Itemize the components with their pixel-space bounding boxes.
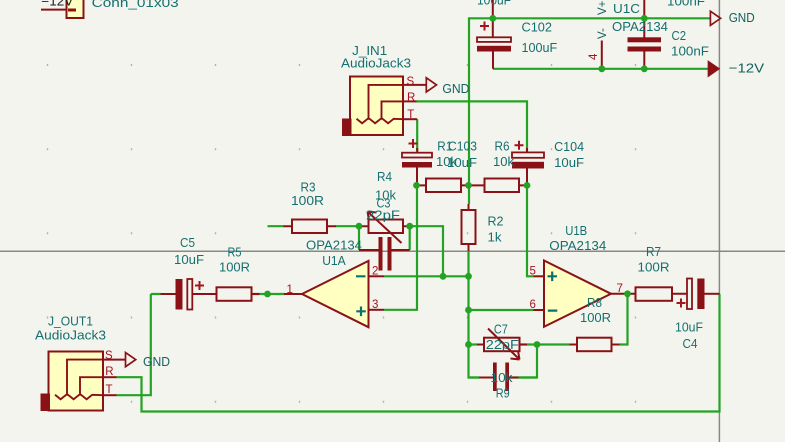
wire C7 right green — [519, 376, 538, 378]
resistor R8 — [577, 338, 612, 352]
polarity + C104 — [515, 141, 524, 150]
svg-text:22pF: 22pF — [486, 337, 519, 352]
global label -12V right (filled) — [709, 62, 719, 76]
capacitor C102 plates — [477, 37, 511, 42]
wire pin6 row — [469, 309, 534, 311]
svg-text:C4: C4 — [683, 336, 698, 351]
capacitor C2 plates — [628, 37, 662, 42]
pin C2 pins — [643, 18, 645, 69]
svg-text:1k: 1k — [488, 230, 503, 245]
pin J_IN1 tip pin — [403, 118, 417, 120]
potentiometer R4 wiper arrow — [368, 212, 402, 244]
svg-text:6: 6 — [530, 299, 536, 311]
svg-text:100R: 100R — [580, 310, 611, 325]
svg-text:22pF: 22pF — [366, 208, 400, 223]
pin C102 bottom pin — [492, 52, 494, 69]
pin J_OUT1 ring pin — [103, 376, 117, 378]
polarity + C4 — [677, 299, 686, 308]
svg-text:C2: C2 — [672, 28, 687, 43]
junction R2 bottom node — [465, 273, 472, 280]
op-amp U1A triangle — [302, 261, 369, 327]
wire C3 right riser — [409, 226, 411, 250]
svg-text:R: R — [105, 366, 113, 378]
pin C3 leads — [359, 249, 410, 251]
junction R1/R6/R2 node — [465, 182, 472, 189]
wire J_IN1 tip down to C103 — [416, 119, 418, 151]
junction feedback at U1A pin2 — [440, 273, 447, 280]
resistor R5 — [217, 287, 252, 301]
connector J1 Conn_01x03 body — [67, 0, 84, 18]
svg-text:10uF: 10uF — [447, 155, 477, 170]
svg-text:10uF: 10uF — [174, 252, 204, 267]
audio jack J_OUT1 body — [49, 352, 104, 411]
pin R8 stubs — [570, 344, 620, 346]
pin J_IN1 sleeve pin — [403, 84, 426, 86]
pin R4 stubs — [359, 225, 410, 227]
svg-text:U1C: U1C — [613, 1, 640, 16]
resistor R2 — [462, 210, 476, 244]
svg-text:OPA2134: OPA2134 — [612, 19, 668, 34]
svg-text:1: 1 — [287, 284, 293, 296]
audio jack J_OUT1 contacts — [55, 360, 103, 400]
pin R2 stubs — [468, 204, 470, 251]
pin R7 stubs — [629, 293, 687, 295]
junction U1B pin6 node — [465, 307, 472, 314]
op-amp U1B triangle — [544, 261, 611, 327]
wire -12V rail — [493, 68, 709, 70]
junction R4/C3 right node — [406, 223, 413, 230]
pin R5 stubs — [252, 293, 260, 295]
audio jack J_IN1 sleeve pad — [342, 119, 352, 137]
svg-text:R7: R7 — [646, 244, 661, 259]
resistor R6 — [485, 179, 520, 193]
svg-text:GND: GND — [729, 10, 755, 25]
svg-text:10uF: 10uF — [675, 320, 703, 335]
resistor R9 (pot) — [484, 338, 520, 352]
wire R3 row feedback — [268, 226, 444, 276]
pin Conn_01x03 pin3 — [41, 9, 67, 11]
capacitor C3 plates — [379, 237, 383, 271]
junction U1B out/R7/R8 node — [624, 290, 631, 297]
svg-text:V-: V- — [597, 28, 609, 39]
capacitor C5 plates — [176, 279, 183, 310]
wire U1B output to R7 — [628, 293, 630, 295]
op-amp U1A input marks — [356, 276, 366, 316]
pin C1 bottom pin — [643, 0, 645, 18]
pin C103 pins — [416, 148, 418, 186]
svg-text:3: 3 — [372, 299, 378, 311]
svg-text:C7: C7 — [494, 322, 508, 337]
svg-text:10uF: 10uF — [554, 155, 584, 170]
wire C4 right to bottom rail — [718, 293, 720, 295]
pin C104 pins — [526, 148, 528, 186]
resistor R1 — [426, 179, 461, 193]
pin U1B pin5 lead — [534, 275, 545, 277]
polarity + C103 — [409, 139, 418, 148]
svg-text:T: T — [106, 384, 113, 396]
wire C7 cap left lead joint — [469, 376, 480, 378]
junction C104/R6 node — [524, 182, 531, 189]
pin pot R9 stubs — [477, 344, 527, 346]
svg-text:5: 5 — [530, 266, 536, 278]
svg-text:C104: C104 — [554, 139, 584, 154]
connector J1 pin stub inside — [68, 9, 76, 12]
pin J_OUT1 tip pin — [103, 394, 117, 396]
svg-text:AudioJack3: AudioJack3 — [341, 56, 411, 71]
svg-text:U1A: U1A — [322, 253, 346, 268]
svg-text:R4: R4 — [377, 169, 392, 184]
wire pot C7 row — [469, 343, 570, 345]
svg-text:100nF: 100nF — [671, 44, 709, 59]
svg-text:S: S — [105, 350, 113, 362]
svg-text:OPA2134: OPA2134 — [306, 238, 362, 253]
svg-text:V+: V+ — [597, 0, 609, 15]
junction C101/C102 at GND rail — [489, 15, 496, 22]
svg-text:J_OUT1: J_OUT1 — [48, 314, 93, 329]
svg-text:100nF: 100nF — [667, 0, 705, 9]
wire J_OUT ring to bottom rail — [117, 294, 720, 412]
wire J_OUT tip riser to C5 — [117, 294, 151, 395]
junction R5/U1A pin1 node — [264, 291, 271, 298]
svg-text:R2: R2 — [488, 214, 504, 229]
junction R3/R4/C3 node — [356, 223, 363, 230]
resistor R4 (pot) — [369, 220, 404, 234]
svg-text:S: S — [407, 76, 415, 88]
svg-text:100R: 100R — [291, 193, 324, 208]
pin U1C V- pin 4 — [601, 41, 603, 69]
svg-text:100R: 100R — [638, 260, 670, 275]
svg-text:R8: R8 — [587, 295, 602, 310]
potentiometer R9 wiper arrow — [488, 329, 520, 360]
svg-text:R6: R6 — [495, 139, 510, 154]
resistor R7 — [636, 287, 673, 301]
junction C1/C2 at GND rail — [641, 15, 648, 22]
svg-text:C5: C5 — [180, 235, 195, 250]
svg-text:R5: R5 — [228, 245, 242, 260]
wire U1A pin2 row — [384, 275, 469, 277]
capacitor C4 plates — [687, 279, 692, 310]
svg-text:7: 7 — [617, 283, 623, 295]
junction R9/C7 right node — [534, 341, 541, 348]
pin C101 bottom pin + C102 top pin — [492, 0, 494, 37]
junction C103/R1 node — [413, 182, 420, 189]
svg-text:AudioJack3: AudioJack3 — [35, 328, 106, 343]
svg-text:GND: GND — [143, 354, 170, 369]
sheet crosshair lines — [0, 250, 785, 252]
global label GND at J_OUT1 — [126, 353, 136, 367]
pin U1A pin1 lead — [284, 293, 302, 295]
pin C4 right lead — [705, 293, 720, 295]
svg-text:GND: GND — [442, 81, 469, 96]
capacitor C7 plates — [493, 363, 497, 392]
grid dots — [48, 64, 636, 403]
svg-text:100uF: 100uF — [522, 40, 558, 55]
svg-text:R: R — [407, 92, 415, 104]
pin U1A pin2 lead — [369, 275, 385, 277]
junction U1C V- at -12V rail — [598, 65, 605, 72]
svg-text:−12V: −12V — [41, 0, 74, 9]
svg-text:10k: 10k — [491, 370, 514, 385]
svg-text:OPA2134: OPA2134 — [549, 238, 606, 253]
svg-text:100R: 100R — [219, 260, 250, 275]
pin C7 leads — [479, 377, 519, 379]
pin U1B pin6 lead — [534, 309, 545, 311]
global label GND at J_IN1 — [426, 78, 436, 92]
svg-text:T: T — [407, 109, 414, 121]
wire C3 left drop — [358, 226, 360, 250]
wire C7 cap lower path — [479, 345, 537, 378]
svg-text:Conn_01x03: Conn_01x03 — [92, 0, 179, 10]
pin C5 leads — [161, 293, 217, 295]
audio jack J_OUT1 sleeve pad — [41, 394, 51, 412]
pin R1 stubs — [417, 184, 469, 186]
svg-text:100uF: 100uF — [477, 0, 511, 8]
audio jack J_IN1 body — [350, 77, 403, 136]
pin J_IN1 ring pin — [403, 100, 417, 102]
wire GND top rail — [469, 18, 710, 204]
audio jack J_IN1 contacts — [357, 85, 404, 123]
svg-text:10k: 10k — [493, 154, 514, 169]
capacitor C103 plates — [402, 153, 432, 158]
pin U1B pin7 lead — [611, 293, 628, 295]
svg-text:C102: C102 — [522, 20, 553, 35]
polarity + C5 — [195, 281, 204, 290]
polarity + C102 — [480, 22, 489, 31]
svg-text:−12V: −12V — [729, 61, 765, 76]
wire node C103 bottom to U1A pin3 — [384, 186, 417, 310]
svg-text:2: 2 — [372, 266, 378, 278]
op-amp U1B input marks — [548, 272, 558, 311]
svg-text:C103: C103 — [448, 139, 477, 154]
wire J_IN1 ring to C104 — [417, 101, 528, 151]
resistor R3 — [292, 220, 327, 234]
pin U1A pin3 lead — [369, 309, 385, 311]
junction C2 at -12V rail — [641, 65, 648, 72]
svg-text:4: 4 — [588, 53, 600, 60]
junction R9/C7 left node — [465, 341, 472, 348]
wire R2 bottom vertical bus — [469, 251, 480, 378]
pin R6 stubs — [469, 184, 528, 186]
capacitor C104 plates — [512, 152, 544, 157]
wire R8 to output riser — [620, 294, 628, 345]
pin J_OUT1 sleeve pin — [103, 359, 126, 361]
pin R3 stubs — [284, 225, 337, 227]
global label GND top right — [710, 11, 720, 25]
wire U1A output row — [151, 293, 285, 295]
wire C104 bottom to pin5 — [527, 186, 534, 276]
svg-text:R9: R9 — [496, 386, 510, 401]
svg-text:U1B: U1B — [565, 223, 587, 238]
